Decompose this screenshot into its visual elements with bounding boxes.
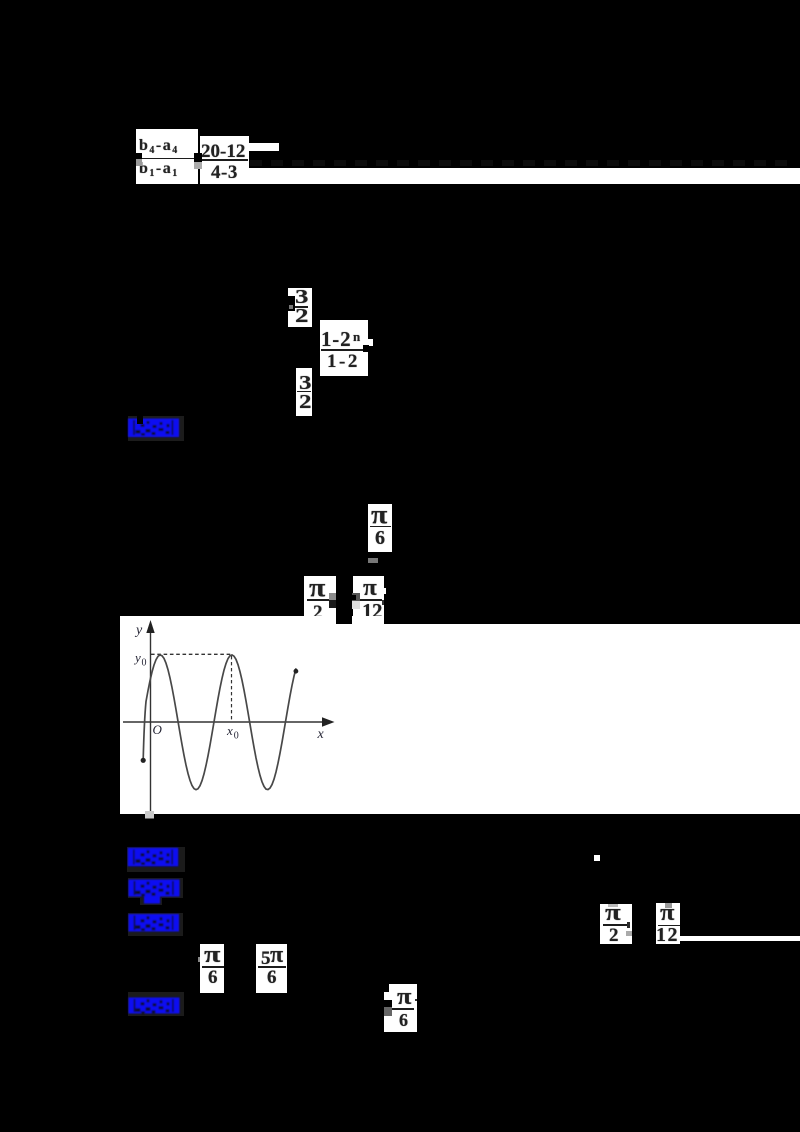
white strip right of numerator 20-12 (247, 143, 280, 151)
white dot on 考点 line (594, 855, 601, 862)
svg-text:x: x (226, 723, 233, 738)
black notch over label1 top (137, 416, 144, 425)
fraction 3/2 (first) (288, 288, 312, 328)
x-axis arrowhead (322, 717, 335, 726)
fraction (1-2^n)/(1-2) (320, 320, 368, 376)
y-axis (150, 627, 152, 812)
sine curve (143, 655, 296, 790)
white nub and equals right of patch (368, 339, 373, 346)
text 4-3 denominator (211, 163, 238, 182)
gray square at bottom of y axis (145, 811, 154, 819)
small gray dot before pi/6 (198, 957, 200, 962)
text b4-a4 numerator (139, 138, 179, 156)
white strip right of pi/12 to page edge (680, 936, 800, 942)
text 20-12 numerator (201, 142, 245, 161)
fraction image patch A (b4-a4)/(b1-a1) (136, 129, 199, 185)
fraction 3/2 (second) (296, 368, 312, 417)
comma after second pi/2 (627, 922, 630, 928)
equals sign between A and B (194, 153, 202, 162)
svg-text:x: x (317, 727, 325, 742)
white nub right of pi/12 bar (382, 588, 386, 593)
faint dashed underline row (250, 160, 795, 166)
fraction bar A (139, 158, 195, 159)
x-axis (123, 721, 326, 723)
dashed horizontal y0 line (151, 653, 232, 655)
svg-text:y: y (134, 623, 143, 638)
svg-text:0: 0 (234, 731, 239, 742)
comma after pi/2 (329, 593, 336, 601)
equals mark on left edge of 3/2 patch (288, 296, 296, 311)
small gray dash above pi/12 line (368, 558, 378, 564)
svg-text:0: 0 (142, 658, 147, 669)
y-axis arrowhead (146, 620, 154, 633)
dashed vertical x0 line (231, 656, 233, 721)
equals sign dark mark left of patch A (136, 153, 143, 159)
long white bar to page right edge (200, 168, 800, 184)
end dot (294, 669, 299, 674)
black notch between pi/2 and pi/12 over band (336, 616, 353, 625)
text b1-a1 denominator (139, 161, 179, 179)
black strip right of pi/12 over band top (384, 616, 800, 625)
equals mark on bottom pi/6 left (384, 1000, 392, 1007)
equals mark left edge of pi/12 (352, 593, 360, 601)
svg-text:y: y (133, 650, 141, 665)
svg-text:O: O (153, 722, 163, 737)
fraction image patch B (20-12)/(4-3) (200, 136, 249, 184)
start dot (141, 758, 146, 763)
fraction bar B (201, 159, 248, 161)
